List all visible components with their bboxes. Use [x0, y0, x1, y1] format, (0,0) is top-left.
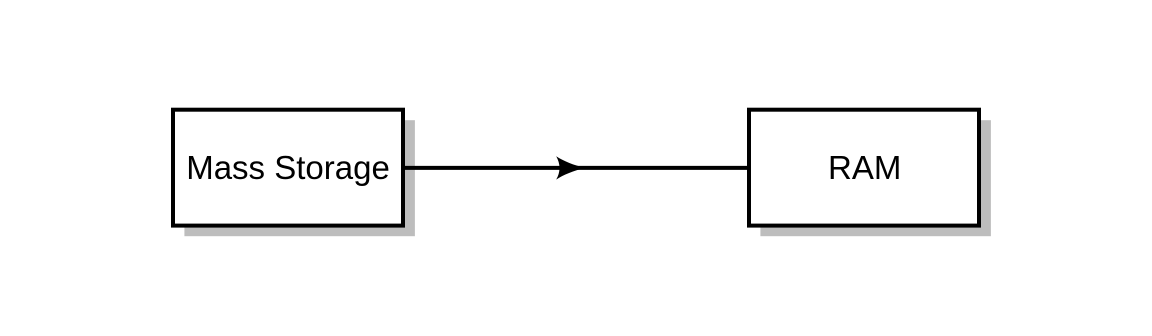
arrowhead: [556, 156, 585, 179]
wire Mass Storage to RAM: [404, 166, 748, 170]
box Mass Storage: [173, 110, 403, 226]
shadow of RAM box: [760, 120, 991, 236]
box RAM: [749, 110, 979, 226]
svg-text:RAM: RAM: [828, 149, 901, 186]
shadow of Mass Storage box: [184, 120, 415, 236]
svg-text:Mass Storage: Mass Storage: [186, 149, 390, 186]
